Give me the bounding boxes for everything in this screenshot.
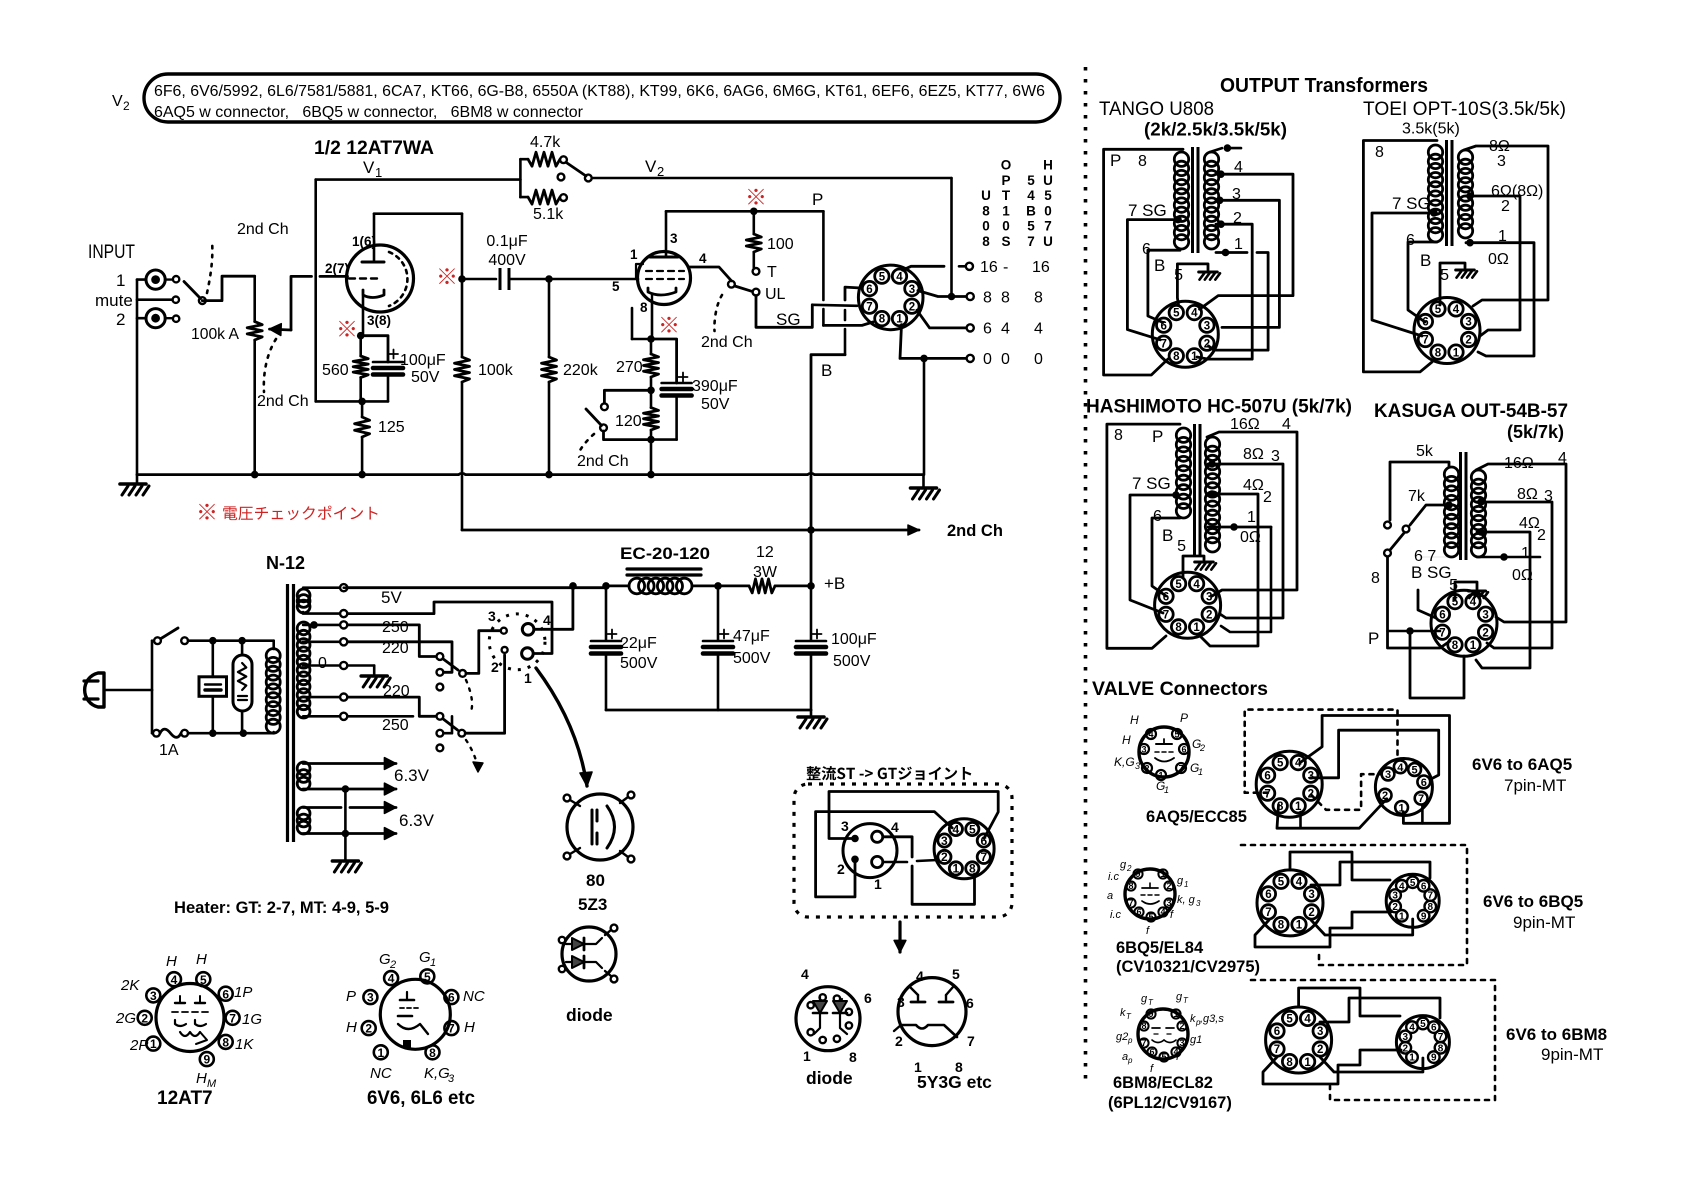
- svg-text:5: 5: [1452, 597, 1459, 609]
- svg-text:NC: NC: [463, 988, 485, 1005]
- line filter capacitor: [209, 637, 217, 645]
- red note voltage check points: [199, 504, 215, 520]
- svg-text:5k: 5k: [1416, 443, 1434, 460]
- svg-text:500V: 500V: [620, 655, 658, 672]
- svg-text:4: 4: [1282, 416, 1291, 433]
- svg-text:4: 4: [1409, 1023, 1415, 1034]
- wire socket pin4 to 16 tap: [903, 266, 945, 270]
- svg-text:2: 2: [1403, 1043, 1409, 1054]
- svg-text:1: 1: [1304, 1057, 1311, 1069]
- TANGO core: [1191, 147, 1194, 253]
- svg-text:4: 4: [388, 972, 395, 986]
- svg-text:1: 1: [803, 1048, 811, 1064]
- svg-text:100μF: 100μF: [400, 352, 446, 369]
- tube V2 output pentode: [638, 252, 691, 305]
- transformer primary winding: [266, 649, 280, 663]
- svg-text:250: 250: [382, 619, 409, 636]
- svg-text:g2: g2: [1116, 1031, 1128, 1043]
- adapter2 wire D: [1311, 919, 1413, 935]
- svg-text:6BQ5/EL84: 6BQ5/EL84: [1116, 939, 1204, 957]
- svg-text:K,G: K,G: [424, 1065, 450, 1082]
- wire 5V bottom to rect pin1: [348, 602, 553, 654]
- svg-text:1: 1: [1198, 767, 1203, 777]
- +B node: [807, 582, 815, 590]
- rect socket pin1: [522, 648, 534, 660]
- bus hop at B+ vertical: [808, 473, 815, 474]
- svg-text:7: 7: [1044, 219, 1052, 234]
- svg-text:U: U: [981, 188, 991, 203]
- svg-text:4: 4: [1191, 308, 1198, 320]
- svg-text:6V6 to 6BQ5: 6V6 to 6BQ5: [1483, 892, 1583, 911]
- rect socket pin2: [502, 647, 508, 653]
- TANGO secondary winding: [1204, 152, 1218, 166]
- svg-text:5V: 5V: [381, 588, 402, 607]
- svg-text:8: 8: [1001, 289, 1010, 306]
- svg-text:g1: g1: [1190, 1034, 1202, 1046]
- svg-text:1G: 1G: [242, 1011, 262, 1028]
- svg-text:1: 1: [116, 271, 125, 290]
- node cathode bottom junction: [358, 398, 366, 406]
- svg-text:9: 9: [1135, 869, 1140, 879]
- svg-text:2: 2: [1233, 210, 1242, 227]
- svg-text:H: H: [1130, 713, 1139, 727]
- svg-text:7k: 7k: [1408, 488, 1426, 505]
- TANGO outer P loop wire: [1104, 149, 1183, 375]
- pilot lamp: [238, 637, 246, 645]
- ground symbol left: [136, 475, 139, 484]
- coupling cap 0.1uF 400V: [462, 278, 496, 281]
- fuse 1A: [151, 690, 154, 733]
- svg-text:22μF: 22μF: [620, 635, 657, 652]
- ST-GT adapter dashed box: [794, 784, 1012, 917]
- svg-text:g: g: [1177, 875, 1184, 887]
- svg-text:16: 16: [980, 259, 998, 276]
- wire input ground: [137, 278, 146, 281]
- adapter wire pin3 to pin6: [829, 792, 998, 839]
- svg-text:3: 3: [941, 834, 948, 848]
- wire rect pin4 to B+ rail: [534, 586, 573, 629]
- selector switch B: [437, 713, 444, 720]
- svg-text:1: 1: [1470, 640, 1477, 652]
- ground bus: [137, 473, 459, 476]
- svg-text:4: 4: [1193, 579, 1200, 591]
- svg-text:3: 3: [1206, 592, 1212, 604]
- svg-text:8: 8: [1114, 427, 1123, 444]
- svg-text:0: 0: [983, 351, 992, 368]
- adapter1 wire pin3-pin6: [1311, 730, 1439, 779]
- svg-text:3: 3: [670, 231, 678, 246]
- svg-text:0Ω: 0Ω: [1512, 567, 1533, 584]
- TOEI socket: [1414, 298, 1480, 364]
- svg-text:5: 5: [1175, 579, 1182, 591]
- svg-text:H: H: [464, 1019, 475, 1036]
- svg-text:6: 6: [1421, 777, 1427, 789]
- KASUGA secondary winding: [1471, 470, 1485, 484]
- adapter wire octal pin4 to UX4 pin2: [816, 812, 953, 897]
- svg-text:diode: diode: [806, 1068, 853, 1088]
- svg-text:7 SG: 7 SG: [1128, 201, 1167, 220]
- feedback wire from resistor switch to cathode junction: [314, 180, 317, 402]
- svg-text:5: 5: [1173, 308, 1180, 320]
- svg-text:3: 3: [1204, 320, 1210, 332]
- svg-text:2: 2: [1317, 1044, 1323, 1056]
- bypass cap 100uF 50V: [361, 336, 388, 362]
- svg-text:3(8): 3(8): [367, 313, 391, 328]
- svg-text:16: 16: [1032, 259, 1050, 276]
- 6V6 to 6BM8 adapter: [1266, 1007, 1332, 1073]
- svg-text:INPUT: INPUT: [88, 242, 135, 263]
- svg-text:2: 2: [657, 164, 664, 179]
- svg-text:1: 1: [1191, 351, 1198, 363]
- selector switch A: [437, 653, 444, 660]
- dashed gang line to 2nd Ch (input switch): [207, 240, 212, 293]
- svg-text:1: 1: [1193, 622, 1200, 634]
- svg-text:0: 0: [1001, 351, 1010, 368]
- svg-text:120: 120: [615, 413, 642, 430]
- svg-text:7: 7: [1264, 788, 1270, 800]
- svg-text:3: 3: [1271, 448, 1280, 465]
- svg-text:3: 3: [448, 1073, 455, 1085]
- svg-text:2: 2: [941, 850, 948, 864]
- svg-text:7: 7: [1265, 907, 1271, 919]
- voltage check mark V1 cathode: [339, 321, 355, 337]
- svg-text:12: 12: [756, 544, 774, 561]
- svg-text:1: 1: [1453, 347, 1460, 359]
- svg-text:8: 8: [1128, 881, 1133, 891]
- HASHIMOTO primary winding: [1176, 428, 1190, 442]
- svg-text:a: a: [1107, 890, 1113, 902]
- wire wiper to V1 grid: [291, 276, 312, 330]
- svg-text:g: g: [1120, 859, 1127, 871]
- svg-text:OUTPUT Transformers: OUTPUT Transformers: [1220, 75, 1428, 97]
- svg-text:5: 5: [1174, 729, 1179, 739]
- svg-text:3: 3: [909, 284, 915, 296]
- svg-text:7: 7: [866, 301, 872, 313]
- svg-text:6: 6: [1160, 320, 1166, 332]
- plate wire V2 to P corner: [666, 210, 823, 213]
- svg-text:2: 2: [1465, 335, 1471, 347]
- svg-text:HASHIMOTO HC-507U (5k/7k): HASHIMOTO HC-507U (5k/7k): [1086, 397, 1352, 418]
- svg-text:6: 6: [1422, 317, 1428, 329]
- filter cap 47uF 500V: [717, 586, 720, 640]
- svg-text:9: 9: [1148, 1009, 1153, 1019]
- node cathode network bottom: [647, 436, 655, 444]
- svg-text:4: 4: [801, 966, 809, 982]
- svg-text:2nd Ch: 2nd Ch: [947, 522, 1003, 540]
- svg-text:8Ω: 8Ω: [1243, 446, 1264, 463]
- wires HV taps to selector B: [348, 697, 436, 716]
- svg-text:220k: 220k: [563, 362, 599, 379]
- switch across 120: [604, 390, 651, 403]
- svg-text:1: 1: [1002, 203, 1010, 218]
- svg-text:6F6, 6V6/5992, 6L6/7581/5881,: 6F6, 6V6/5992, 6L6/7581/5881, 6CA7, KT66…: [154, 83, 1045, 100]
- svg-text:2nd Ch: 2nd Ch: [577, 453, 629, 470]
- svg-text:1: 1: [1399, 911, 1405, 922]
- wire 0 tap to ground bus: [923, 358, 926, 474]
- svg-text:8: 8: [429, 1046, 436, 1060]
- svg-text:6: 6: [966, 995, 974, 1011]
- svg-text:3: 3: [367, 991, 374, 1005]
- adapter1 wire pin8-pin2: [1277, 799, 1387, 828]
- dashed gang to 2nd Ch (pot): [264, 339, 276, 392]
- filter cap 22uF 500V: [605, 586, 608, 640]
- TANGO primary winding: [1174, 152, 1188, 166]
- rectifier socket dashed circle: [489, 614, 545, 670]
- svg-text:1(6): 1(6): [352, 234, 376, 249]
- svg-text:1A: 1A: [159, 742, 179, 759]
- svg-text:390μF: 390μF: [692, 378, 738, 395]
- svg-text:0: 0: [1034, 351, 1043, 368]
- section divider dotted: [1084, 67, 1088, 1082]
- svg-text:0: 0: [982, 219, 990, 234]
- bypass cap 390uF 50V: [651, 339, 677, 383]
- adapter2 dashed box: [1241, 845, 1467, 965]
- feedback select switch: [558, 174, 565, 181]
- node 47uF: [714, 582, 722, 590]
- 2nd Ch B+ line: [462, 529, 919, 532]
- svg-text:B: B: [1420, 251, 1431, 270]
- coupling node V1 plate: [439, 268, 455, 284]
- svg-text:B SG: B SG: [1411, 563, 1452, 582]
- svg-text:3: 3: [1317, 1026, 1323, 1038]
- svg-text:6: 6: [864, 990, 872, 1006]
- pot wiper arrow: [270, 328, 292, 332]
- svg-text:1: 1: [953, 862, 960, 876]
- svg-text:1: 1: [430, 957, 436, 969]
- svg-text:5: 5: [1435, 304, 1442, 316]
- svg-text:6: 6: [1163, 592, 1169, 604]
- title rectifier ST to GT joint: [807, 766, 972, 780]
- arrow below adapter box: [898, 922, 901, 952]
- svg-text:U: U: [1043, 234, 1053, 249]
- input select switch: [199, 297, 206, 304]
- svg-text:H: H: [1122, 733, 1131, 747]
- svg-text:H: H: [196, 951, 207, 968]
- diode socket pinout: [796, 987, 860, 1051]
- svg-text:,g3,s: ,g3,s: [1200, 1013, 1224, 1025]
- svg-text:500V: 500V: [733, 650, 771, 667]
- svg-text:2: 2: [1206, 609, 1212, 621]
- svg-text:5: 5: [1027, 219, 1035, 234]
- svg-text:7 SG: 7 SG: [1132, 474, 1171, 493]
- 6.3V center to ground: [344, 789, 347, 834]
- rect socket pin3: [501, 628, 507, 634]
- svg-text:6V6 to 6AQ5: 6V6 to 6AQ5: [1472, 755, 1572, 774]
- svg-text:100k: 100k: [478, 362, 514, 379]
- svg-text:7: 7: [1163, 609, 1169, 621]
- HV winding: [297, 622, 310, 635]
- svg-text:6: 6: [1264, 770, 1270, 782]
- svg-text:6: 6: [866, 284, 872, 296]
- adapter3 dashed box: [1251, 980, 1495, 1100]
- svg-text:4: 4: [1148, 729, 1153, 739]
- 12AT7 pinout: [156, 984, 224, 1052]
- KASUGA switch blade and common: [1384, 550, 1391, 557]
- svg-text:4: 4: [1296, 876, 1303, 888]
- svg-text:6Ω(8Ω): 6Ω(8Ω): [1491, 183, 1543, 200]
- svg-text:3: 3: [1135, 761, 1140, 771]
- svg-text:4: 4: [896, 271, 903, 283]
- svg-text:3: 3: [1308, 889, 1314, 901]
- svg-text:5: 5: [1177, 538, 1186, 555]
- svg-text:S: S: [1001, 234, 1010, 249]
- svg-text:8: 8: [1034, 289, 1043, 306]
- svg-text:(5k/7k): (5k/7k): [1507, 422, 1564, 442]
- svg-text:8: 8: [1435, 347, 1442, 359]
- svg-text:6.3V: 6.3V: [399, 811, 435, 830]
- svg-text:3: 3: [1179, 1038, 1184, 1048]
- svg-text:2: 2: [1126, 864, 1132, 873]
- svg-text:1: 1: [524, 670, 532, 686]
- svg-text:2: 2: [491, 659, 499, 675]
- wire selector A to rect pin3: [466, 631, 500, 674]
- dashed gang to 2nd Ch (UL switch): [714, 295, 722, 331]
- svg-text:H: H: [1043, 158, 1053, 173]
- wires HV taps to selector A: [348, 625, 436, 657]
- svg-text:TANGO U808: TANGO U808: [1099, 99, 1214, 120]
- transformer core N-12: [286, 584, 289, 842]
- svg-text:9: 9: [1431, 1053, 1437, 1064]
- svg-text:1: 1: [1160, 869, 1165, 879]
- svg-text:TOEI OPT-10S(3.5k/5k): TOEI OPT-10S(3.5k/5k): [1363, 99, 1566, 120]
- svg-text:2G: 2G: [115, 1010, 136, 1027]
- svg-text:k, g: k, g: [1177, 894, 1196, 906]
- 6.3V winding B: [297, 807, 310, 820]
- svg-text:3: 3: [897, 994, 905, 1010]
- TANGO socket: [1152, 301, 1218, 367]
- svg-text:2: 2: [116, 310, 125, 329]
- svg-text:8: 8: [879, 314, 886, 326]
- svg-text:P: P: [1001, 173, 1010, 188]
- wire V2 screen pin4 to switch: [689, 267, 731, 281]
- svg-text:2: 2: [1166, 881, 1171, 891]
- UL tap terminal: [753, 289, 760, 296]
- KASUGA SG wire: [1420, 556, 1449, 558]
- TANGO tap 4 wire: [1217, 170, 1225, 178]
- svg-text:2: 2: [895, 1033, 903, 1049]
- svg-text:270: 270: [616, 359, 643, 376]
- svg-text:8: 8: [640, 300, 648, 315]
- feedback resistor bracket: [519, 159, 522, 197]
- svg-text:8: 8: [983, 289, 992, 306]
- TOEI outer loop wire: [1363, 141, 1437, 372]
- rect socket pin4: [522, 624, 534, 636]
- svg-text:T: T: [767, 264, 777, 281]
- mains switch: [151, 641, 154, 690]
- 6V6 6L6 pinout: [380, 979, 450, 1049]
- svg-text:9: 9: [1421, 911, 1427, 922]
- svg-text:50V: 50V: [411, 369, 440, 386]
- ground power supply: [810, 710, 813, 716]
- svg-text:-: -: [1003, 259, 1008, 276]
- svg-text:2: 2: [389, 959, 396, 971]
- wire to V2 grid: [549, 278, 638, 281]
- svg-text:9pin-MT: 9pin-MT: [1541, 1045, 1603, 1064]
- svg-text:7: 7: [1178, 763, 1183, 773]
- svg-text:2: 2: [1392, 902, 1398, 913]
- 5Y3G socket pinout: [898, 978, 966, 1046]
- svg-text:7 SG: 7 SG: [1392, 194, 1431, 213]
- svg-text:+B: +B: [824, 574, 845, 593]
- svg-text:4.7k: 4.7k: [530, 134, 561, 151]
- svg-text:VALVE Connectors: VALVE Connectors: [1092, 678, 1268, 700]
- svg-text:1: 1: [1164, 785, 1169, 795]
- node V2 cathode: [647, 335, 655, 343]
- adapter wire UX4 pin4 to octal pin8: [883, 837, 912, 857]
- svg-text:1: 1: [150, 1037, 157, 1051]
- svg-text:2: 2: [1263, 489, 1272, 506]
- svg-text:5: 5: [1410, 878, 1416, 889]
- svg-text:6: 6: [1153, 508, 1162, 525]
- svg-text:5: 5: [200, 973, 207, 987]
- svg-text:5: 5: [1440, 267, 1449, 284]
- svg-text:100: 100: [767, 236, 794, 253]
- adapter2 wire A: [1290, 852, 1390, 880]
- HASHIMOTO core: [1193, 424, 1196, 556]
- cap bottom rail: [606, 709, 811, 712]
- rectifier 80 5Z3 symbol: [567, 794, 633, 860]
- svg-text:g: g: [1141, 993, 1148, 1005]
- HASHIMOTO outer P loop: [1107, 424, 1180, 648]
- svg-text:P: P: [1180, 711, 1188, 725]
- svg-text:125: 125: [378, 419, 405, 436]
- svg-text:(6PL12/CV9167): (6PL12/CV9167): [1108, 1094, 1232, 1112]
- svg-text:2: 2: [141, 1011, 148, 1025]
- svg-text:8: 8: [1286, 1057, 1293, 1069]
- adapter1 wire pin4-pin1: [1300, 716, 1450, 824]
- svg-text:100μF: 100μF: [831, 631, 877, 648]
- svg-text:4: 4: [953, 822, 960, 836]
- svg-text:5: 5: [1412, 764, 1418, 776]
- TANGO secondary top terminal: [1210, 148, 1222, 152]
- svg-text:3: 3: [488, 608, 496, 624]
- svg-text:5: 5: [879, 271, 886, 283]
- svg-text:3.5k(5k): 3.5k(5k): [1402, 121, 1460, 138]
- HASHIMOTO socket: [1155, 572, 1221, 638]
- 6V6 to 6AQ5 adapter: [1256, 751, 1322, 817]
- svg-text:2: 2: [1179, 1021, 1184, 1031]
- svg-text:8: 8: [222, 1036, 229, 1050]
- svg-text:6V6, 6L6 etc: 6V6, 6L6 etc: [367, 1088, 475, 1109]
- svg-text:P: P: [812, 190, 823, 209]
- KASUGA primary winding: [1444, 467, 1458, 481]
- svg-text:50V: 50V: [701, 396, 730, 413]
- TANGO tap 3 wire: [1216, 197, 1224, 205]
- 6BM8 pinout mini: [1138, 1009, 1188, 1059]
- svg-text:0Ω: 0Ω: [1240, 529, 1261, 546]
- svg-text:3: 3: [1385, 769, 1391, 781]
- svg-text:diode: diode: [566, 1005, 613, 1025]
- wire B+ vertical junction 2nd Ch: [807, 526, 815, 534]
- svg-text:1: 1: [1184, 880, 1188, 889]
- svg-text:1: 1: [1234, 236, 1243, 253]
- TOEI primary winding: [1428, 145, 1442, 159]
- svg-text:2nd Ch: 2nd Ch: [237, 221, 289, 238]
- svg-text:4: 4: [891, 819, 899, 835]
- svg-text:4: 4: [1397, 762, 1404, 774]
- KASUGA socket: [1431, 590, 1497, 656]
- 5V winding: [297, 589, 310, 602]
- svg-text:Heater: GT: 2-7, MT: 4-9, 5-9: Heater: GT: 2-7, MT: 4-9, 5-9: [174, 898, 389, 917]
- svg-text:(2k/2.5k/3.5k/5k): (2k/2.5k/3.5k/5k): [1144, 120, 1287, 140]
- svg-text:O: O: [1001, 158, 1012, 173]
- TANGO tap 1 wire: [1222, 249, 1230, 257]
- svg-text:V: V: [363, 158, 375, 177]
- wire V2 top (feedback from 8 ohm tap): [592, 177, 952, 180]
- svg-text:5: 5: [1278, 876, 1285, 888]
- svg-text:2K: 2K: [120, 977, 140, 994]
- svg-text:2: 2: [1204, 338, 1210, 350]
